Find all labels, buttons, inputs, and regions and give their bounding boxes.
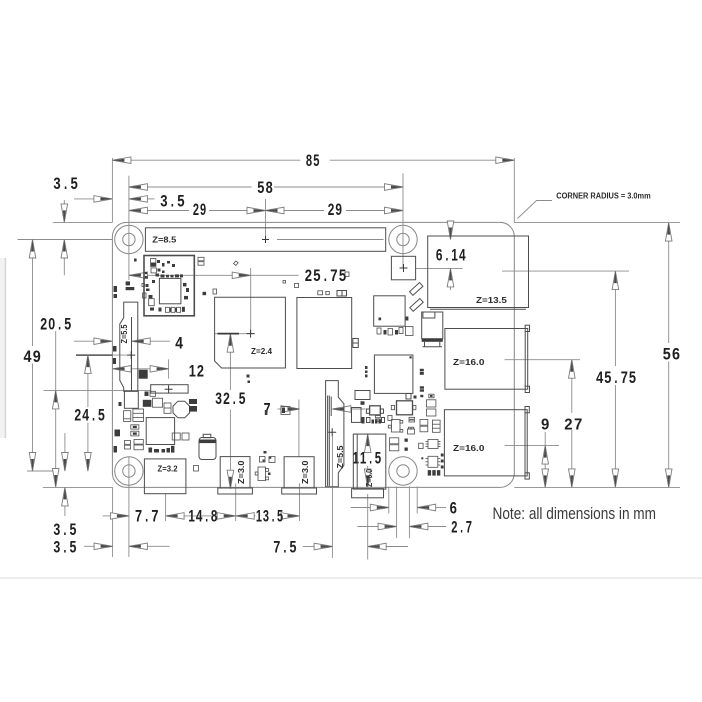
ext: z6 center down (367, 494, 369, 560)
dim 24.5 line (87, 355, 89, 407)
dark bits wifi (151, 263, 156, 267)
ext: poe square line right (416, 267, 463, 269)
ext: usbpwr center down (235, 483, 237, 521)
dim 7.7-14.8-13.5 baseline (103, 515, 111, 517)
ext: hole centerline left (18, 239, 113, 241)
svg-text:4: 4 (175, 334, 183, 352)
arrows 58 (129, 184, 148, 191)
ext: board bottom edge left (43, 486, 113, 488)
dark electrolytic band (199, 440, 215, 444)
mounting hole TL (115, 225, 143, 253)
DSI connector (120, 302, 138, 391)
arrows 3.5 vert TL (61, 204, 68, 223)
USB stack 1 (445, 329, 528, 390)
arrows 9 (542, 446, 549, 465)
mounting hole BR (389, 457, 417, 485)
svg-text:Z=6.0: Z=6.0 (365, 469, 374, 487)
dim 3.5 bl horiz tails (84, 545, 95, 547)
arrows 3.5 BL vert (62, 453, 69, 472)
dim 85 line (112, 159, 300, 161)
ext: hole BR tangent inner right (408, 486, 410, 538)
arrows 29R (266, 207, 285, 214)
svg-text:Z=5.5: Z=5.5 (120, 324, 129, 343)
pads right of wifi (198, 257, 204, 261)
arrows 7.7 (110, 513, 129, 520)
ext: hole BR tangent outer right (416, 486, 418, 513)
arrows 14.8 / 13.5 (217, 513, 236, 520)
svg-text:Z=13.5: Z=13.5 (476, 296, 507, 305)
wifi chip inner (159, 278, 181, 303)
arrows 2.7 (378, 523, 397, 530)
dim 9 line (544, 432, 546, 487)
svg-text:85: 85 (306, 152, 320, 170)
svg-text:29: 29 (193, 201, 206, 219)
pad row above audio jack (149, 448, 153, 453)
left mid cluster (153, 398, 163, 407)
ext: hole BR tangent outer left (388, 486, 390, 513)
ext: bottom hole centerline left (27, 470, 59, 472)
arrows 56 (665, 223, 672, 242)
diagonal rects top right (410, 283, 443, 347)
arrows 4 (94, 338, 113, 345)
svg-text:Z=3.0: Z=3.0 (237, 460, 246, 484)
ext: board left edge down (112, 487, 114, 557)
arrows 25.75 (129, 272, 148, 279)
SoC (215, 297, 286, 368)
dim 29 right line (266, 210, 325, 212)
ext: board right edge up (513, 158, 515, 223)
arrows 29L (129, 207, 148, 214)
dim 11.5 line (367, 434, 369, 449)
svg-text:7: 7 (264, 400, 271, 418)
plus GPIO (262, 236, 269, 243)
svg-text:9: 9 (541, 416, 550, 433)
ext: 11.5 top ref (353, 433, 380, 435)
ext: audio center down (165, 494, 167, 521)
usb power Z3.0 (220, 457, 250, 488)
chip below LAN (374, 355, 413, 393)
ext: hdmi center down (299, 483, 301, 521)
svg-text:49: 49 (24, 348, 41, 366)
dim 3.5 horiz top tail left (74, 198, 94, 200)
ext: 12dim plus vertical (168, 359, 170, 378)
SDRAM (297, 298, 352, 369)
scrollbar artifact strip (0, 258, 5, 438)
svg-text:7.5: 7.5 (273, 539, 296, 557)
ext: soc center horizontal (215, 333, 255, 335)
plus 12dim (165, 385, 173, 393)
dim 49 line (32, 240, 34, 347)
CSI connector (326, 381, 344, 487)
plus PoE (400, 264, 408, 272)
pads below LAN chip (384, 330, 387, 335)
PoE header square (391, 256, 415, 280)
ext: usb1 centerline right (505, 359, 580, 361)
dim 7.5 tails (303, 546, 315, 548)
svg-text:Z=3.0: Z=3.0 (301, 460, 310, 484)
svg-text:25.75: 25.75 (305, 267, 346, 285)
ext: dsi plus horizontal (76, 354, 131, 356)
dim 45.75 line (614, 271, 616, 366)
svg-text:Note: all dimensions in mm: Note: all dimensions in mm (493, 505, 657, 523)
dim 27 line (571, 360, 573, 413)
svg-text:6: 6 (450, 499, 457, 517)
arrows 11.5 (364, 434, 371, 453)
dark pair left (143, 400, 152, 407)
ext: hole BL vertical down (128, 457, 130, 557)
tiny above RAM (318, 291, 323, 295)
svg-text:Z=8.5: Z=8.5 (152, 236, 177, 245)
svg-text:3.5: 3.5 (53, 539, 76, 557)
arrows 7 (281, 406, 300, 413)
svg-text:27: 27 (564, 416, 582, 433)
svg-text:2.7: 2.7 (451, 519, 472, 537)
USB stack 2 (444, 410, 527, 476)
arrows 12 (113, 366, 132, 373)
svg-text:Z=16.0: Z=16.0 (453, 444, 485, 453)
audio jack Z3.2 (144, 459, 186, 494)
svg-text:CORNER RADIUS = 3.0mm: CORNER RADIUS = 3.0mm (556, 192, 650, 201)
arrows 7.5 (314, 543, 333, 550)
dim 56 line (668, 223, 670, 343)
svg-text:58: 58 (257, 179, 272, 197)
tiny right of GPIO area (345, 272, 349, 276)
leader: corner radius (518, 201, 553, 219)
svg-text:7.7: 7.7 (135, 508, 159, 526)
dim 20.5 line (55, 331, 57, 487)
ext: dsi plus vertical (131, 329, 133, 356)
dim 4 tails (74, 340, 95, 342)
arrows 49 (29, 240, 36, 259)
arrows 20.5 (52, 390, 59, 409)
arrows 3.5 horiz top (94, 196, 113, 203)
ext: hole TR vertical (402, 173, 404, 268)
dim 3.5 bl vert tails (64, 433, 66, 453)
ext: board bottom edge right (514, 486, 680, 488)
svg-text:56: 56 (663, 345, 680, 363)
dim 6 tails (351, 507, 371, 509)
octagon inductor (173, 401, 190, 418)
svg-text:29: 29 (328, 201, 342, 219)
12dim component (151, 385, 188, 393)
ext: hdmi center up (298, 400, 300, 457)
mounting hole TR (389, 225, 417, 253)
connector below ethernet (422, 312, 443, 339)
plus CSI (328, 428, 336, 436)
arrows 27 (569, 360, 576, 379)
svg-text:Z=2.4: Z=2.4 (251, 347, 273, 356)
ext: ethernet centerline right (502, 270, 629, 272)
dim 3.5 vert TL tails (63, 200, 65, 204)
ext: board left edge up (111, 158, 113, 222)
ext: usb2 centerline right (505, 445, 559, 447)
svg-text:Z=16.0: Z=16.0 (453, 358, 485, 367)
board outline (112, 222, 514, 487)
LAN controller (374, 296, 405, 326)
dim 3.5 horiz top tail right (147, 198, 155, 200)
arrows 45.75 (612, 271, 619, 290)
arrows 32.5 (227, 334, 234, 353)
electrolytic cap body (199, 438, 216, 460)
svg-text:Z=5.5: Z=5.5 (336, 445, 345, 469)
component labels (120, 236, 507, 488)
ext: board top edge right (514, 222, 680, 224)
ext: GPIO center vertical (265, 199, 267, 240)
ext: 20.5 ref line (44, 389, 151, 391)
svg-text:3.5: 3.5 (53, 175, 77, 193)
ext: soc center vertical (250, 268, 252, 334)
wifi module outer (144, 256, 194, 316)
ext: hole BR tangent inner left (396, 486, 398, 538)
dim 6.14 tails (450, 220, 452, 223)
ethernet jack (428, 236, 529, 308)
svg-text:12: 12 (189, 362, 204, 380)
plus DSI (127, 351, 135, 359)
arrows 85 (112, 157, 130, 164)
svg-text:Z=3.2: Z=3.2 (158, 465, 179, 474)
dim 7 tails (278, 408, 284, 410)
arrows 3.5 BL horiz (94, 543, 113, 550)
small dark bits (405, 439, 408, 442)
wifi pads outline (151, 259, 156, 267)
dim 58 line (129, 186, 252, 188)
mounting hole BL (115, 457, 143, 485)
small parts right-mid cluster (397, 401, 413, 415)
PMIC (146, 418, 174, 445)
svg-text:3.5: 3.5 (53, 521, 76, 539)
hdmi Z3.0 (284, 457, 314, 488)
svg-text:6.14: 6.14 (436, 246, 466, 264)
plus SoC (247, 330, 255, 338)
svg-text:45.75: 45.75 (596, 369, 636, 387)
dim 12 line (113, 368, 169, 370)
ext: csi center down (331, 436, 333, 558)
ext: board top edge left (53, 221, 113, 223)
GPIO header J8 (145, 228, 385, 252)
dim 29 left line (129, 210, 189, 212)
svg-text:3.5: 3.5 (160, 192, 184, 210)
gpio centerline right of plus (277, 239, 384, 241)
plus crosses (127, 236, 407, 436)
dim 32.5 line (229, 334, 231, 390)
dim 2.7 tails (357, 526, 378, 528)
arrows 6 (370, 504, 389, 511)
arrows 24.5 (85, 355, 92, 374)
ext: hole TL vertical (128, 176, 130, 280)
usb micro Z6 connector (353, 434, 386, 489)
dim 25.75 line (129, 274, 251, 276)
arrows 6.14 (447, 221, 454, 240)
